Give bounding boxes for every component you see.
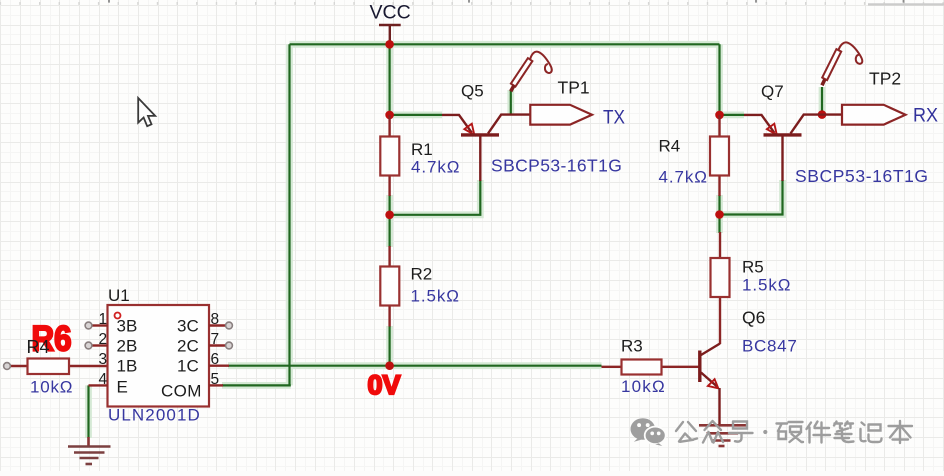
svg-text:4.7kΩ: 4.7kΩ [411, 158, 460, 177]
junction TP2 tap [818, 110, 827, 119]
svg-text:Q7: Q7 [761, 82, 784, 101]
resistor R5 [711, 232, 730, 344]
wire node B to R2 top [389, 215, 391, 247]
ground at ULN pin E [68, 437, 111, 464]
pin 5 stub [209, 384, 223, 386]
svg-text:RX: RX [913, 105, 938, 127]
svg-text:7: 7 [211, 331, 220, 348]
svg-text:R4: R4 [27, 337, 50, 357]
wire R1 bottom to node B [389, 195, 391, 215]
svg-text:0V: 0V [368, 370, 401, 400]
wire R2 bottom to drive net [389, 326, 391, 366]
svg-text:4.7kΩ: 4.7kΩ [659, 168, 708, 187]
wire node B2 to R5 top [718, 215, 720, 234]
svg-text:Q5: Q5 [461, 82, 484, 101]
pin 7 no-connect [226, 342, 233, 349]
svg-text:TP2: TP2 [869, 69, 901, 89]
svg-text:1B: 1B [117, 357, 138, 376]
junction node A2 [715, 111, 724, 120]
pin 4 stub [89, 384, 108, 386]
svg-text:2: 2 [99, 331, 108, 348]
svg-text:TP1: TP1 [558, 78, 590, 98]
pin 1 no-connect [85, 322, 92, 329]
resistor R2 [380, 246, 399, 327]
resistor R6 [4, 359, 108, 375]
svg-text:1.5kΩ: 1.5kΩ [742, 276, 791, 295]
svg-text:2B: 2B [117, 337, 138, 356]
svg-text:R2: R2 [411, 265, 433, 284]
junction node A [385, 111, 394, 120]
svg-text:R1: R1 [411, 140, 433, 159]
svg-text:U1: U1 [108, 286, 130, 305]
svg-text:VCC: VCC [370, 2, 411, 24]
svg-text:3C: 3C [177, 317, 199, 336]
wire R4 bottom to node B2 [718, 195, 720, 215]
probe at TP2 [822, 42, 862, 85]
pin 7 stub [209, 344, 226, 346]
junction VCC rail [385, 40, 394, 49]
probe at TP1 [511, 52, 552, 92]
wire probe TP2 drop [821, 87, 823, 115]
svg-text:3B: 3B [117, 317, 138, 336]
resistor R4 [710, 115, 729, 196]
wire top VCC rail [290, 43, 720, 45]
wire COM pin5 to drop [222, 384, 291, 386]
watermark text 公众号 · 硬件笔记本 [676, 421, 912, 443]
transistor Q6 [700, 344, 720, 426]
svg-text:2C: 2C [177, 337, 199, 356]
svg-text:10kΩ: 10kΩ [621, 377, 666, 396]
svg-text:SBCP53-16T1G: SBCP53-16T1G [795, 166, 929, 186]
watermark logo [631, 418, 666, 446]
power port VCC [379, 25, 401, 44]
wire ULN pin4 to ground [87, 385, 89, 438]
svg-text:4: 4 [99, 371, 108, 388]
svg-text:R4: R4 [659, 137, 681, 156]
pin 1 stub [92, 324, 108, 326]
wire right rail drop to node A2 [718, 44, 720, 115]
svg-text:1.5kΩ: 1.5kΩ [411, 287, 460, 306]
svg-text:6: 6 [211, 351, 220, 368]
svg-text:R5: R5 [742, 258, 764, 277]
wire drive net 1C output [228, 365, 602, 367]
svg-text:3: 3 [99, 351, 108, 368]
svg-text:Q6: Q6 [742, 308, 765, 328]
wire node A2 to Q7 emitter [720, 114, 745, 116]
junction node B [385, 211, 394, 220]
svg-text:10kΩ: 10kΩ [30, 378, 73, 397]
top edge tick marks [0, 0, 944, 5]
svg-text:1: 1 [99, 311, 108, 328]
svg-text:BC847: BC847 [742, 337, 797, 356]
wire node A to Q5 emitter [390, 114, 442, 116]
svg-text:1C: 1C [177, 357, 199, 376]
pin 6 stub [209, 365, 229, 367]
junction node B2 [715, 210, 724, 219]
svg-text:5: 5 [211, 371, 220, 388]
wire VCC junction down to node A [389, 44, 391, 115]
svg-text:TX: TX [603, 107, 625, 129]
ground at Q6 emitter [699, 425, 747, 446]
pin 2 no-connect [85, 342, 92, 349]
pin 8 no-connect [226, 322, 233, 329]
wire probe TP1 drop [510, 90, 512, 115]
wire node B2 to Q7 base [720, 180, 783, 215]
test port TP1 [530, 105, 592, 125]
junction drive net [385, 361, 394, 370]
wire left drop to COM [288, 44, 290, 385]
svg-text:ULN2001D: ULN2001D [108, 406, 201, 425]
svg-text:SBCP53-16T1G: SBCP53-16T1G [491, 156, 622, 176]
svg-text:COM: COM [161, 382, 202, 401]
svg-text:8: 8 [211, 311, 220, 328]
IC U1 ULN2001D [108, 305, 210, 407]
pin 8 stub [209, 324, 226, 326]
wire node B to Q5 base [390, 180, 481, 215]
transistor Q7 [744, 115, 842, 181]
svg-text:R3: R3 [621, 337, 643, 356]
resistor R1 [380, 115, 399, 196]
mouse cursor [138, 98, 155, 126]
test port TP2 [842, 105, 906, 125]
resistor R3 [602, 360, 700, 375]
wire halo (soft glow under all green nets) [89, 44, 823, 438]
pin 2 stub [92, 344, 108, 346]
transistor Q5 [442, 115, 530, 181]
svg-text:E: E [117, 378, 128, 397]
